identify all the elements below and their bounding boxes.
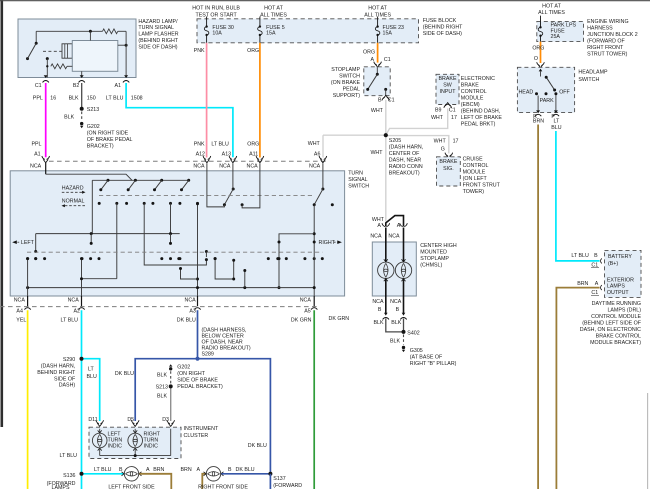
stoplamp pin B C1 bbox=[378, 95, 395, 103]
label G202 mid bbox=[177, 365, 223, 390]
svg-text:A11: A11 bbox=[249, 152, 258, 158]
svg-text:PNK: PNK bbox=[194, 141, 205, 147]
label left turn indic bbox=[108, 432, 123, 450]
label S137 block bbox=[273, 476, 302, 489]
headlamp blade bbox=[545, 76, 556, 92]
label S289 block bbox=[202, 328, 251, 358]
svg-text:BLU: BLU bbox=[87, 374, 97, 380]
svg-text:STOPLAMP: STOPLAMP bbox=[331, 67, 360, 73]
svg-text:S289: S289 bbox=[202, 352, 214, 358]
svg-text:BLK: BLK bbox=[157, 393, 167, 399]
svg-text:TURN: TURN bbox=[348, 171, 363, 177]
DRL battery box bbox=[605, 250, 642, 297]
svg-text:S136: S136 bbox=[63, 473, 75, 479]
svg-text:BEHIND RIGHT: BEHIND RIGHT bbox=[37, 370, 76, 376]
headlamp pin R bbox=[533, 110, 544, 124]
label LT BLU a2 bbox=[61, 318, 79, 324]
splice S213 bbox=[80, 107, 100, 113]
svg-text:OFF: OFF bbox=[559, 89, 570, 95]
svg-text:SWITCH: SWITCH bbox=[578, 77, 599, 83]
svg-text:C1: C1 bbox=[388, 98, 395, 104]
svg-text:RIGHT: RIGHT bbox=[319, 240, 336, 246]
label DK GRN right bbox=[329, 316, 350, 322]
cluster A2 bbox=[81, 257, 101, 260]
headlamp feed arrow bbox=[539, 69, 543, 77]
svg-text:A2: A2 bbox=[74, 309, 81, 315]
headlamp caption bbox=[578, 70, 608, 83]
wire DKBLU S289-D5 bbox=[135, 359, 197, 421]
svg-text:SUPPORT): SUPPORT) bbox=[333, 93, 361, 99]
svg-text:HARNESS: HARNESS bbox=[587, 26, 613, 32]
svg-text:BRACKET): BRACKET) bbox=[87, 144, 114, 150]
svg-text:BRAKE: BRAKE bbox=[439, 159, 457, 165]
svg-text:A: A bbox=[197, 467, 201, 473]
svg-text:RIGHT FRONT SIDE: RIGHT FRONT SIDE bbox=[198, 484, 248, 489]
headlamp contact OFF bbox=[554, 89, 570, 95]
svg-text:PARK: PARK bbox=[540, 98, 554, 104]
svg-text:RIGHT FRONT: RIGHT FRONT bbox=[587, 45, 624, 51]
svg-text:S137: S137 bbox=[273, 476, 285, 482]
flasher B2 branch bbox=[81, 71, 83, 77]
label WHT 17 ebcm bbox=[431, 115, 457, 121]
svg-text:LT BLU: LT BLU bbox=[94, 467, 112, 473]
hazard/turn signal flasher box bbox=[18, 19, 136, 78]
stoplamp pin A C1 bbox=[371, 57, 391, 67]
svg-text:B: B bbox=[396, 307, 400, 313]
hazard dashed row bbox=[99, 194, 315, 196]
chmsl box bbox=[372, 242, 416, 296]
flasher switch blade bbox=[26, 42, 38, 60]
chmsl bulb left bbox=[378, 228, 394, 314]
wire DKBLU rightlamp-S137 bbox=[221, 473, 270, 475]
svg-text:FRONT STRUT: FRONT STRUT bbox=[463, 182, 501, 188]
cruise caption bbox=[463, 156, 501, 195]
svg-text:PPL: PPL bbox=[33, 96, 43, 102]
hazard contact 1 bbox=[98, 180, 119, 205]
wire ORG park-headlamp bbox=[540, 42, 542, 63]
svg-text:(FORWARD: (FORWARD bbox=[273, 483, 302, 489]
svg-text:SIDE OF BRAKE: SIDE OF BRAKE bbox=[177, 378, 218, 384]
chmsl bridge wire bbox=[386, 216, 404, 227]
svg-text:DASH, ON ELECTRONIC: DASH, ON ELECTRONIC bbox=[580, 327, 641, 333]
connector row top bbox=[49, 160, 326, 162]
svg-text:NCA: NCA bbox=[390, 299, 402, 305]
svg-text:TEST OR START: TEST OR START bbox=[195, 12, 237, 18]
DRL caption bbox=[580, 301, 642, 346]
svg-text:NCA: NCA bbox=[14, 297, 26, 303]
ground G202 mid bbox=[169, 364, 172, 370]
svg-text:(AT BASE OF: (AT BASE OF bbox=[410, 354, 443, 360]
fuse 5 feed stub bbox=[259, 17, 261, 19]
flasher dashed link bbox=[43, 50, 62, 52]
svg-text:B: B bbox=[594, 253, 598, 259]
svg-text:BREAKOUT): BREAKOUT) bbox=[389, 171, 420, 177]
svg-text:WHT: WHT bbox=[371, 108, 384, 114]
label right turn indic bbox=[144, 432, 161, 450]
label LT BLU low bbox=[60, 453, 78, 459]
flasher coil bbox=[62, 44, 72, 58]
svg-text:PEDAL BRKT): PEDAL BRKT) bbox=[461, 121, 496, 127]
svg-text:(EBCM): (EBCM) bbox=[461, 102, 480, 108]
svg-text:(BEHIND RIGHT: (BEHIND RIGHT bbox=[423, 24, 463, 30]
svg-text:RIGHT "B" PILLAR): RIGHT "B" PILLAR) bbox=[410, 361, 457, 367]
flasher internal top wire bbox=[36, 31, 102, 42]
svg-text:NCA: NCA bbox=[193, 163, 205, 169]
wire ORG F23-stoplamp bbox=[377, 43, 379, 63]
svg-text:WHT: WHT bbox=[370, 150, 383, 156]
svg-text:CRUISE: CRUISE bbox=[463, 156, 483, 162]
label YEL bbox=[16, 318, 26, 324]
chmsl bulb right bbox=[395, 228, 411, 314]
svg-text:BLK: BLK bbox=[157, 373, 167, 379]
svg-text:WHT: WHT bbox=[431, 115, 444, 121]
chmsl pin A left bbox=[377, 223, 389, 229]
svg-text:FUSE BLOCK: FUSE BLOCK bbox=[423, 18, 457, 24]
dropper u4-A3 bbox=[196, 202, 199, 296]
svg-text:S213: S213 bbox=[87, 107, 99, 113]
instrument cluster box bbox=[89, 427, 181, 458]
stoplamp contact B bbox=[384, 88, 387, 96]
flasher resistor R-top bbox=[103, 29, 127, 34]
A2 riser bbox=[80, 257, 83, 296]
chmsl pin B right bbox=[396, 307, 407, 320]
stoplamp switch box bbox=[364, 67, 390, 96]
pin A13 bbox=[219, 156, 236, 169]
battery pin A bbox=[601, 285, 602, 290]
svg-text:BRN: BRN bbox=[181, 467, 192, 473]
turn signal switch caption bbox=[348, 171, 369, 190]
svg-text:BRN: BRN bbox=[153, 467, 164, 473]
label ORG A11 bbox=[247, 141, 259, 157]
svg-text:LT BLU: LT BLU bbox=[211, 141, 229, 147]
wire DKGRN A5-bottom bbox=[313, 310, 315, 489]
DRL box text bbox=[607, 254, 634, 296]
svg-text:10A: 10A bbox=[212, 31, 222, 37]
hazard feed bus bbox=[46, 174, 189, 233]
wire ORG F5-A11 bbox=[259, 43, 261, 158]
svg-text:S205: S205 bbox=[389, 138, 401, 144]
svg-text:DK BLU: DK BLU bbox=[248, 443, 267, 449]
svg-text:PPL: PPL bbox=[31, 141, 41, 147]
wire BLK chmsl-S402 bbox=[386, 319, 404, 332]
svg-text:O: O bbox=[534, 56, 538, 62]
label B DK BLU lamp2 bbox=[228, 467, 255, 473]
label S136 block bbox=[47, 473, 76, 489]
flasher C1 branch bbox=[46, 57, 49, 77]
chmsl pin B left bbox=[378, 307, 389, 320]
svg-text:LT BLU: LT BLU bbox=[571, 253, 589, 259]
A11 jog bbox=[242, 163, 260, 208]
label WHT A6 bbox=[308, 141, 321, 158]
turn signal switch box bbox=[10, 171, 344, 296]
wire YEL A4-bottom bbox=[27, 310, 29, 489]
svg-text:DAYTIME RUNNING: DAYTIME RUNNING bbox=[592, 301, 641, 307]
fuse F30 bbox=[204, 19, 209, 43]
label ORG park bbox=[532, 45, 544, 51]
svg-text:B: B bbox=[378, 307, 382, 313]
label A BRN lamp bbox=[146, 467, 165, 473]
label WHT chmsl bbox=[372, 217, 385, 223]
wire WHT S205-A6 bbox=[323, 135, 386, 157]
A6 drop bbox=[322, 163, 324, 189]
svg-text:LEFT: LEFT bbox=[21, 240, 35, 246]
wire BLK dashed S402-G305 bbox=[390, 335, 404, 345]
svg-text:(FORWARD OF: (FORWARD OF bbox=[587, 39, 625, 45]
svg-text:LT BLU: LT BLU bbox=[60, 453, 78, 459]
svg-text:TURN SIGNAL: TURN SIGNAL bbox=[138, 25, 174, 31]
headlamp contact PARK bbox=[540, 92, 554, 104]
svg-text:A: A bbox=[371, 57, 375, 63]
battery pin B bbox=[601, 258, 602, 263]
stoplamp blade bbox=[366, 67, 379, 91]
svg-text:1508: 1508 bbox=[131, 96, 143, 102]
fuse block caption bbox=[423, 18, 463, 37]
label BLK d3 bbox=[157, 393, 167, 399]
pin A6 bbox=[309, 156, 327, 169]
svg-text:YEL: YEL bbox=[16, 318, 26, 324]
svg-text:INDIC: INDIC bbox=[144, 444, 159, 450]
splice S136 bbox=[80, 472, 84, 476]
svg-text:OUTPUT: OUTPUT bbox=[607, 290, 630, 296]
svg-text:STRUT TOWER): STRUT TOWER) bbox=[587, 52, 628, 58]
svg-text:BLK: BLK bbox=[64, 115, 74, 121]
svg-text:NCA: NCA bbox=[185, 297, 197, 303]
flasher relay box bbox=[72, 41, 118, 72]
left front side marker lamp bbox=[122, 467, 142, 481]
wire BLK dashed to G202 bbox=[64, 112, 82, 121]
svg-text:C1: C1 bbox=[35, 83, 42, 89]
svg-text:CENTER HIGH: CENTER HIGH bbox=[420, 243, 457, 249]
svg-text:HEADLAMP: HEADLAMP bbox=[578, 70, 608, 76]
label S290 block bbox=[37, 357, 76, 389]
svg-text:JUNCTION BLOCK 2: JUNCTION BLOCK 2 bbox=[587, 32, 638, 38]
svg-text:SIGNAL: SIGNAL bbox=[348, 177, 367, 183]
svg-text:NCA: NCA bbox=[247, 163, 259, 169]
svg-text:CLUSTER: CLUSTER bbox=[184, 433, 209, 439]
label DK BLU a3 bbox=[177, 318, 196, 324]
wire BLK B2-S213 bbox=[81, 83, 83, 109]
wire BLK S213-D3 bbox=[170, 386, 172, 421]
svg-text:BLK: BLK bbox=[391, 320, 401, 326]
svg-text:SIDE OF DASH): SIDE OF DASH) bbox=[423, 31, 462, 37]
EBCM brake sw input box bbox=[436, 74, 459, 104]
cluster ground wire bbox=[100, 429, 171, 457]
svg-text:LT BLU: LT BLU bbox=[106, 96, 124, 102]
svg-text:G: G bbox=[441, 147, 445, 153]
wire BRN rightlamp-up bbox=[202, 474, 206, 489]
svg-text:BRAKE: BRAKE bbox=[461, 83, 479, 89]
label PARK LPS FUSE 25A bbox=[551, 23, 577, 41]
wire PPL C1-A1 bbox=[45, 83, 47, 157]
label FUSE 23 15A bbox=[383, 25, 405, 37]
svg-text:STOPLAMP: STOPLAMP bbox=[420, 256, 449, 262]
svg-text:HOT IN RUN, BULB: HOT IN RUN, BULB bbox=[192, 5, 240, 11]
svg-text:DK GRN: DK GRN bbox=[291, 318, 312, 324]
right elbow bbox=[278, 234, 315, 289]
label LT BLU B lamp bbox=[94, 467, 123, 473]
svg-text:BLK: BLK bbox=[373, 320, 383, 326]
svg-text:B9: B9 bbox=[435, 107, 442, 113]
fuse 30 feed stub bbox=[206, 17, 208, 19]
svg-text:ENGINE WIRING: ENGINE WIRING bbox=[587, 19, 629, 25]
pin A2 bbox=[68, 296, 85, 315]
hazard contact 3 bbox=[151, 180, 172, 205]
svg-text:ORG: ORG bbox=[247, 48, 259, 54]
svg-text:LAMPS: LAMPS bbox=[52, 485, 70, 489]
headlamp P leg bbox=[555, 95, 557, 113]
svg-text:ORG: ORG bbox=[532, 45, 544, 51]
label LT BLU B drl bbox=[571, 253, 598, 259]
flasher pin A1 bbox=[115, 75, 130, 89]
right turn indicator bulb bbox=[128, 429, 143, 456]
label BRN A lamp2 bbox=[181, 467, 201, 473]
label FUSE 5 15A bbox=[266, 25, 285, 37]
cluster dot 179.9 bbox=[178, 257, 181, 260]
svg-text:A5: A5 bbox=[304, 309, 311, 315]
svg-text:BRAKE: BRAKE bbox=[439, 76, 457, 82]
label S205 bbox=[389, 138, 423, 177]
label ORG stoplamp bbox=[363, 49, 375, 55]
wire PNK F30-A12 bbox=[206, 43, 208, 158]
svg-text:ALL TIMES: ALL TIMES bbox=[260, 12, 287, 18]
svg-text:LEFT OF BRAKE: LEFT OF BRAKE bbox=[461, 115, 503, 121]
cruise brake sig box bbox=[437, 157, 461, 186]
svg-text:HAZARD: HAZARD bbox=[62, 185, 84, 191]
pin A5 bbox=[300, 296, 318, 315]
label PPL 16 bbox=[33, 96, 56, 102]
svg-text:ORG: ORG bbox=[247, 141, 259, 147]
wire WHT S205-EBCM bbox=[386, 109, 448, 136]
svg-text:SIDE OF DASH): SIDE OF DASH) bbox=[138, 44, 177, 50]
svg-text:B: B bbox=[228, 467, 232, 473]
headlamp R leg bbox=[537, 96, 539, 113]
wire BRN exterior-bottom bbox=[556, 288, 599, 489]
label HOT AT ALL TIMES (fuse5) bbox=[260, 5, 287, 18]
left bus stubs bbox=[90, 234, 172, 245]
svg-text:D11: D11 bbox=[88, 417, 97, 423]
left arrow label bbox=[12, 240, 34, 246]
unit6 column bbox=[313, 205, 316, 296]
svg-text:TOWER): TOWER) bbox=[463, 189, 485, 195]
svg-text:OF BRAKE PEDAL: OF BRAKE PEDAL bbox=[87, 137, 133, 143]
fuse F5 bbox=[258, 19, 263, 43]
label PNK top bbox=[194, 48, 205, 54]
label LT BLU 1508 bbox=[106, 96, 143, 102]
label C1 drl1 bbox=[591, 263, 599, 269]
svg-text:NCA: NCA bbox=[370, 234, 382, 240]
svg-text:(BEHIND RIGHT: (BEHIND RIGHT bbox=[138, 38, 178, 44]
svg-text:EXTERIOR: EXTERIOR bbox=[607, 277, 634, 283]
right arrow label bbox=[319, 240, 342, 246]
cluster mid bbox=[160, 257, 180, 260]
svg-text:HOT AT: HOT AT bbox=[368, 5, 387, 11]
label WHT 17 cruise bbox=[434, 138, 459, 144]
svg-text:(BEHIND LEFT SIDE OF: (BEHIND LEFT SIDE OF bbox=[582, 321, 642, 327]
label BLK 150 bbox=[69, 96, 96, 102]
fuse PARK LPS bbox=[538, 21, 543, 41]
svg-text:C1: C1 bbox=[449, 107, 456, 113]
splice S289 bbox=[195, 357, 199, 361]
left bus bbox=[34, 232, 180, 260]
label BLK g202 bbox=[157, 373, 167, 379]
wire LT BLU A1-A13 bbox=[126, 83, 233, 157]
wire WHT S205-CHMSL bbox=[385, 135, 387, 221]
flasher right wire bbox=[118, 31, 128, 77]
label BRN A drl bbox=[577, 281, 599, 287]
label HOT AT ALL TIMES (fuse23) bbox=[364, 5, 391, 18]
svg-text:CONTROL: CONTROL bbox=[463, 163, 489, 169]
svg-text:G202: G202 bbox=[177, 365, 190, 371]
svg-text:NORMAL: NORMAL bbox=[62, 199, 85, 205]
svg-text:LT: LT bbox=[88, 367, 95, 373]
svg-text:HOT AT: HOT AT bbox=[264, 5, 283, 11]
label LT BLU stack bbox=[87, 367, 97, 380]
svg-text:150: 150 bbox=[87, 96, 96, 102]
svg-text:DK BLU: DK BLU bbox=[177, 318, 196, 324]
riser 244 bbox=[243, 269, 246, 288]
svg-text:PNK: PNK bbox=[194, 48, 205, 54]
splice S213 mid bbox=[156, 384, 173, 390]
svg-text:NCA: NCA bbox=[372, 299, 384, 305]
svg-text:BLU: BLU bbox=[551, 125, 561, 131]
cruise pin G bbox=[441, 147, 453, 159]
fuse F23 bbox=[375, 19, 380, 43]
label ORG top bbox=[247, 48, 259, 54]
svg-text:BLK: BLK bbox=[69, 96, 79, 102]
svg-text:NCA: NCA bbox=[30, 163, 42, 169]
pin A3 bbox=[185, 296, 201, 315]
svg-text:G202: G202 bbox=[87, 124, 100, 130]
svg-text:ORG: ORG bbox=[363, 49, 375, 55]
svg-text:SIG.: SIG. bbox=[443, 166, 454, 172]
svg-text:NCA: NCA bbox=[300, 297, 312, 303]
cluster right1 bbox=[267, 257, 288, 260]
svg-text:LEFT FRONT SIDE: LEFT FRONT SIDE bbox=[108, 484, 155, 489]
wire BRN R-bottom bbox=[537, 125, 539, 489]
wire LTBLU A2-S136 bbox=[81, 310, 83, 489]
splice S137 bbox=[268, 472, 272, 489]
svg-text:A: A bbox=[146, 467, 150, 473]
flasher resistor R-bottom bbox=[51, 64, 73, 69]
svg-text:CONTROL: CONTROL bbox=[461, 89, 487, 95]
svg-text:MODULE: MODULE bbox=[463, 169, 486, 175]
svg-text:SWITCH: SWITCH bbox=[348, 184, 369, 190]
dropper u1-A2 bbox=[82, 203, 117, 278]
svg-text:BRN: BRN bbox=[577, 281, 588, 287]
svg-text:A: A bbox=[377, 223, 381, 229]
label WHT mid bbox=[370, 150, 383, 156]
svg-text:LT: LT bbox=[554, 119, 561, 125]
svg-text:(B+): (B+) bbox=[608, 261, 618, 267]
stoplamp caption bbox=[331, 67, 361, 99]
wire DKBLU A3-S289 bbox=[197, 310, 199, 359]
svg-text:NCA: NCA bbox=[388, 234, 400, 240]
bottom bus bbox=[26, 286, 316, 289]
svg-text:BRAKE CONTROL: BRAKE CONTROL bbox=[596, 334, 641, 340]
wire WHT S205-cruise bbox=[386, 136, 449, 154]
svg-text:DK GRN: DK GRN bbox=[329, 316, 350, 322]
svg-text:RADIO CONN: RADIO CONN bbox=[389, 164, 423, 170]
label BLK chmsl bbox=[373, 320, 401, 326]
flasher relay top feed bbox=[89, 30, 92, 41]
label C1 drl2 bbox=[591, 290, 599, 296]
svg-text:15A: 15A bbox=[266, 31, 276, 37]
svg-text:LAMP FLASHER: LAMP FLASHER bbox=[138, 32, 178, 38]
svg-text:A: A bbox=[397, 223, 401, 229]
svg-text:DK BLU: DK BLU bbox=[115, 371, 134, 377]
svg-text:SW: SW bbox=[443, 83, 452, 89]
cluster right2 bbox=[303, 257, 323, 260]
